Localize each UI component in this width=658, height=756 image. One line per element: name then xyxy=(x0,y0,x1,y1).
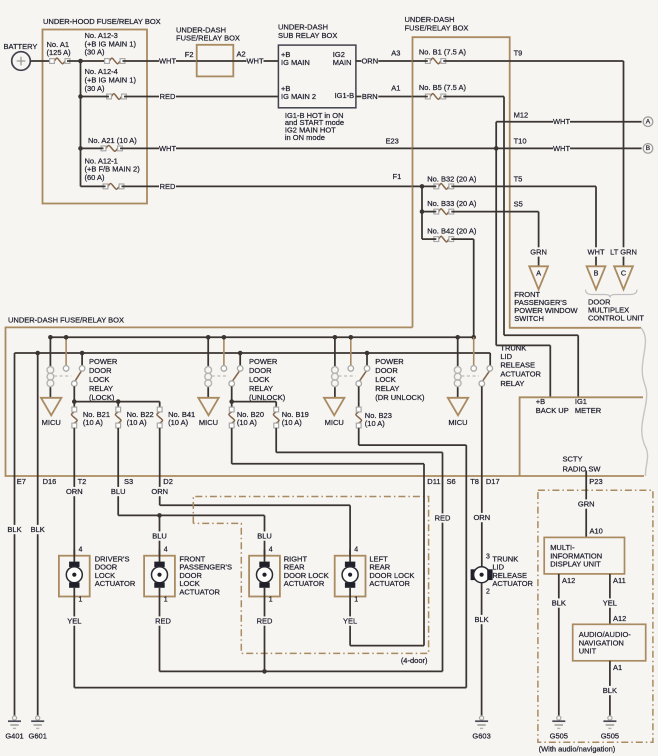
connector circle B xyxy=(643,144,653,154)
svg-text:A2: A2 xyxy=(237,50,246,59)
svg-text:WHT: WHT xyxy=(159,57,176,66)
back-up/meter box (SCTY RADIO SW) xyxy=(520,397,643,476)
svg-text:ACTUATOR: ACTUATOR xyxy=(95,579,136,588)
svg-text:WHT: WHT xyxy=(246,57,263,66)
svg-text:YEL: YEL xyxy=(67,617,81,626)
node BLU front passenger xyxy=(157,513,162,518)
fuse No.B42 (20 A) xyxy=(427,227,477,242)
node B33 junction xyxy=(420,209,425,214)
wire WHT row1 to F2 xyxy=(123,60,197,62)
svg-text:ACTUATOR: ACTUATOR xyxy=(179,588,220,597)
svg-text:RELAY: RELAY xyxy=(375,384,399,393)
power door lock relay ((UNLOCK)) xyxy=(205,335,286,402)
wire P23 GRN to multi-information display unit xyxy=(585,476,587,537)
fuse No.B32 (20 A) xyxy=(427,175,477,190)
bracket door multiplex control unit xyxy=(586,290,645,323)
wire F1 to B32 to T5 xyxy=(413,185,437,187)
svg-text:WHT: WHT xyxy=(159,144,176,153)
svg-text:No. B42 (20 A): No. B42 (20 A) xyxy=(427,227,477,236)
node RED right rear xyxy=(262,669,267,674)
node F1 junction xyxy=(420,184,425,189)
wire B20 to D11 xyxy=(231,428,233,464)
wire M12 feed east to +B BACK UP xyxy=(496,344,550,346)
svg-text:2: 2 xyxy=(486,588,490,595)
svg-text:(With audio/navigation): (With audio/navigation) xyxy=(539,745,616,754)
svg-text:(10 A): (10 A) xyxy=(365,419,386,428)
wire right rear RED down xyxy=(264,601,266,672)
wire A1 to B5 then down xyxy=(413,96,428,98)
wire BLU to right rear actuator xyxy=(264,515,266,555)
audio/audio-navigation unit xyxy=(573,624,646,661)
MICU triangle (unlock relay) xyxy=(198,398,218,416)
svg-text:(10 A): (10 A) xyxy=(168,418,189,427)
svg-text:RELAY: RELAY xyxy=(500,379,524,388)
wire driver's actuator YEL to T8 bus xyxy=(73,601,75,688)
svg-text:B: B xyxy=(594,268,599,277)
svg-text:T9: T9 xyxy=(514,48,523,57)
wire vertical M12/T10 feed xyxy=(495,122,497,346)
MICU triangle (trunk relay) xyxy=(448,398,468,416)
actuator M2 front passenger's door lock xyxy=(144,556,175,597)
svg-text:No. B1 (7.5 A): No. B1 (7.5 A) xyxy=(419,48,467,57)
wire bus under-hood xyxy=(67,60,105,62)
svg-text:IG1: IG1 xyxy=(575,397,587,406)
fuse No.A1 (125 A) xyxy=(47,40,72,64)
wire T9 down to connector C xyxy=(510,60,624,62)
note IG1-B hot modes xyxy=(285,111,344,142)
svg-text:M12: M12 xyxy=(514,110,529,119)
svg-text:DOOR: DOOR xyxy=(249,366,272,375)
actuator M4 left rear door lock xyxy=(335,556,366,597)
wire P23 stub xyxy=(585,471,587,477)
svg-text:MICU: MICU xyxy=(42,418,61,427)
svg-text:(LOCK): (LOCK) xyxy=(89,393,115,402)
wire ground bus in main box xyxy=(15,352,491,354)
svg-text:No. A21 (10 A): No. A21 (10 A) xyxy=(88,136,137,145)
svg-text:(125 A): (125 A) xyxy=(47,48,72,57)
svg-text:(4-door): (4-door) xyxy=(401,656,428,665)
svg-text:BLU: BLU xyxy=(257,532,272,541)
svg-text:A10: A10 xyxy=(590,527,603,536)
svg-text:BLK: BLK xyxy=(475,615,489,624)
node bus-A1 xyxy=(78,59,83,64)
wire left rear YEL to D11 xyxy=(349,601,351,646)
svg-text:YEL: YEL xyxy=(343,617,357,626)
under-dash fuse/relay box (chimney+main) outline xyxy=(6,15,645,476)
svg-text:RED: RED xyxy=(257,617,273,626)
wire D17 ORN to trunk actuator xyxy=(481,476,483,567)
svg-text:RED: RED xyxy=(160,182,176,191)
svg-text:A3: A3 xyxy=(391,48,400,57)
svg-text:3: 3 xyxy=(486,553,490,560)
svg-text:G603: G603 xyxy=(472,731,490,740)
svg-text:IG MAIN 2: IG MAIN 2 xyxy=(281,92,316,101)
svg-text:T10: T10 xyxy=(514,137,527,146)
fuse No.B5 (7.5 A) xyxy=(419,83,467,99)
svg-text:BRN: BRN xyxy=(362,92,378,101)
svg-text:UNDER-DASH FUSE/RELAY BOX: UNDER-DASH FUSE/RELAY BOX xyxy=(8,315,124,324)
wire S6 RED down xyxy=(442,476,444,671)
connector triangle B door multiplex xyxy=(587,266,606,289)
svg-text:RELAY: RELAY xyxy=(249,384,273,393)
svg-text:D17: D17 xyxy=(486,477,500,486)
svg-text:BLK: BLK xyxy=(7,525,21,534)
svg-text:E7: E7 xyxy=(17,477,26,486)
ground G505 left xyxy=(558,713,560,717)
with audio/navigation dashed boundary xyxy=(538,490,653,742)
wire S3 BLU bus xyxy=(117,476,119,515)
wire WHT A2 to sub relay box xyxy=(233,60,278,62)
node B42-coil xyxy=(455,335,460,340)
svg-text:ORN: ORN xyxy=(151,487,168,496)
svg-text:BLU: BLU xyxy=(152,532,167,541)
svg-text:SCTY: SCTY xyxy=(563,455,583,464)
svg-text:RELAY: RELAY xyxy=(89,384,113,393)
node lock bus B22 xyxy=(116,399,121,404)
svg-text:S5: S5 xyxy=(514,200,523,209)
fuse No.B33 (20 A) xyxy=(427,199,477,214)
svg-text:ACTUATOR: ACTUATOR xyxy=(492,579,533,588)
ground G505 right xyxy=(609,713,611,717)
trunk lid release actuator M5 xyxy=(471,553,534,595)
svg-text:BLK: BLK xyxy=(31,525,45,534)
svg-text:4: 4 xyxy=(269,546,273,553)
svg-text:DOOR: DOOR xyxy=(375,366,398,375)
svg-text:WHT: WHT xyxy=(587,248,604,257)
svg-text:ORN: ORN xyxy=(361,57,378,66)
svg-text:G505: G505 xyxy=(550,731,568,740)
wire RED row2 to sub relay box xyxy=(81,96,110,98)
svg-text:UNIT: UNIT xyxy=(579,647,597,656)
wire T10 WHT to connector B xyxy=(413,147,510,149)
under-hood fuse/relay box xyxy=(43,17,161,204)
power door lock relay ((LOCK)) xyxy=(47,335,118,402)
svg-text:DOOR: DOOR xyxy=(89,366,112,375)
svg-text:D2: D2 xyxy=(163,477,173,486)
svg-text:A: A xyxy=(536,268,541,277)
svg-text:(30 A): (30 A) xyxy=(85,84,106,93)
svg-text:(UNLOCK): (UNLOCK) xyxy=(249,393,286,402)
svg-text:IG1-B: IG1-B xyxy=(335,91,355,100)
svg-text:No. B5 (7.5 A): No. B5 (7.5 A) xyxy=(419,83,467,92)
wire T5 down to connector B triangle xyxy=(510,185,596,187)
svg-text:MICU: MICU xyxy=(199,418,218,427)
pin labels main box bottom xyxy=(17,477,603,486)
wire junction column F1-B33-B42 xyxy=(421,186,423,239)
svg-text:A12: A12 xyxy=(562,576,575,585)
svg-text:SUB RELAY BOX: SUB RELAY BOX xyxy=(278,31,337,40)
svg-text:WHT: WHT xyxy=(553,117,570,126)
wire unlock fuse bus xyxy=(232,401,277,403)
svg-text:E23: E23 xyxy=(386,137,399,146)
svg-text:F2: F2 xyxy=(185,50,194,59)
wire RED bus to S6 xyxy=(160,670,443,672)
svg-text:DISPLAY UNIT: DISPLAY UNIT xyxy=(550,560,601,569)
power door lock relay ((DR UNLOCK)) xyxy=(332,335,425,402)
svg-text:D16: D16 xyxy=(43,477,57,486)
MICU triangle (lock relay) xyxy=(41,398,61,416)
fuse No.B19 (10 A) xyxy=(273,402,308,428)
wire trunk actuator BLK to G603 xyxy=(481,583,483,713)
svg-text:BATTERY: BATTERY xyxy=(4,42,38,51)
svg-text:ACTUATOR: ACTUATOR xyxy=(500,370,541,379)
svg-text:MAIN: MAIN xyxy=(333,58,352,67)
svg-text:(10 A): (10 A) xyxy=(127,418,148,427)
multi-information display unit xyxy=(544,537,624,574)
svg-text:FUSE/RELAY BOX: FUSE/RELAY BOX xyxy=(405,24,469,33)
fuse No.B41 (10 A) xyxy=(157,402,195,476)
svg-text:LOCK: LOCK xyxy=(375,375,395,384)
svg-text:BLU: BLU xyxy=(111,487,126,496)
wire front passenger RED down xyxy=(159,601,161,672)
svg-text:(30 A): (30 A) xyxy=(85,48,106,57)
svg-text:A: A xyxy=(646,119,651,126)
wire battery to under-hood box xyxy=(30,60,51,62)
actuator M3 right rear door lock xyxy=(249,556,280,597)
wire lock fuse bus xyxy=(74,401,159,403)
svg-text:(60 A): (60 A) xyxy=(85,173,106,182)
svg-text:RED: RED xyxy=(155,617,171,626)
svg-text:SWITCH: SWITCH xyxy=(514,314,544,323)
wire B5 feed east to IG1 METER xyxy=(504,334,578,336)
svg-text:RELEASE: RELEASE xyxy=(500,361,535,370)
wire B19 to S6 xyxy=(275,428,277,452)
svg-text:F1: F1 xyxy=(393,172,402,181)
wire A1 BLK to G505 xyxy=(609,661,611,713)
wire S5 down to connector A triangle xyxy=(510,211,539,213)
node lock bus B21 xyxy=(72,399,77,404)
wire ORN IG2 MAIN to A3 xyxy=(356,60,413,62)
svg-text:LT GRN: LT GRN xyxy=(610,248,637,257)
svg-text:A1: A1 xyxy=(391,83,400,92)
svg-text:A1: A1 xyxy=(613,663,622,672)
fuse No.B22 (10 A) xyxy=(115,402,153,476)
svg-text:BLK: BLK xyxy=(603,686,617,695)
fuse No.B20 (10 A) xyxy=(229,402,264,428)
ground G603 xyxy=(481,713,483,717)
node unlock bus B20 xyxy=(229,399,234,404)
svg-text:T8: T8 xyxy=(470,477,479,486)
svg-text:(10 A): (10 A) xyxy=(282,418,303,427)
svg-text:1: 1 xyxy=(164,597,168,604)
ground G601 xyxy=(37,713,39,717)
svg-text:ACTUATOR: ACTUATOR xyxy=(369,579,410,588)
svg-text:LOCK: LOCK xyxy=(89,375,109,384)
svg-text:(10 A): (10 A) xyxy=(237,418,258,427)
svg-text:RADIO SW: RADIO SW xyxy=(563,464,602,473)
ground G401 xyxy=(14,713,16,717)
wire A12 BLK to G505 xyxy=(558,574,560,713)
svg-text:T5: T5 xyxy=(514,175,523,184)
svg-text:B: B xyxy=(646,145,651,152)
svg-text:in ON mode: in ON mode xyxy=(285,133,325,142)
svg-text:GRN: GRN xyxy=(578,500,595,509)
wire D2 ORN to left rear actuator xyxy=(159,476,161,505)
node bus-A12-4 xyxy=(78,94,83,99)
under-dash fuse/relay box F2-A2 xyxy=(176,25,246,76)
svg-text:IG MAIN: IG MAIN xyxy=(281,58,310,67)
wire A11 YEL to audio unit xyxy=(609,574,611,624)
node D16 junction xyxy=(35,351,40,356)
svg-text:No. B33 (20 A): No. B33 (20 A) xyxy=(427,199,477,208)
svg-text:ORN: ORN xyxy=(66,487,83,496)
fuse No.B23 (10 A) xyxy=(356,402,392,428)
fuse No.B1 (7.5 A) xyxy=(419,48,467,64)
svg-text:1: 1 xyxy=(269,597,273,604)
connector triangle C door multiplex xyxy=(614,266,633,289)
svg-text:(10 A): (10 A) xyxy=(83,418,104,427)
wire +B bus (B42) in main box xyxy=(50,336,473,338)
svg-text:BLK: BLK xyxy=(552,599,566,608)
svg-text:GRN: GRN xyxy=(530,248,547,257)
wire BRN IG1-B to A1 xyxy=(356,96,413,98)
svg-text:4: 4 xyxy=(79,546,83,553)
svg-text:ACTUATOR: ACTUATOR xyxy=(284,579,325,588)
svg-text:POWER: POWER xyxy=(89,357,118,366)
fuse No.A12-3 (+B IG MAIN 1)(30 A) xyxy=(85,31,137,64)
battery BATTERY xyxy=(4,42,38,70)
svg-text:C: C xyxy=(621,268,626,277)
wire T8 down to YEL bus xyxy=(465,476,467,688)
svg-text:LOCK: LOCK xyxy=(249,375,269,384)
4-door dashed boundary xyxy=(193,497,428,654)
svg-text:4: 4 xyxy=(354,546,358,553)
svg-text:RED: RED xyxy=(160,92,176,101)
svg-text:No. B32 (20 A): No. B32 (20 A) xyxy=(427,175,477,184)
svg-text:1: 1 xyxy=(79,597,83,604)
actuator M1 driver's door lock xyxy=(59,556,90,597)
svg-text:METER: METER xyxy=(575,406,602,415)
svg-text:G401: G401 xyxy=(5,731,23,740)
svg-text:POWER: POWER xyxy=(249,357,278,366)
MICU triangle (dr unlock relay) xyxy=(324,398,344,416)
fuse No.A21 (10 A) xyxy=(88,136,137,151)
svg-text:1: 1 xyxy=(354,597,358,604)
svg-text:4: 4 xyxy=(164,546,168,553)
wire A3 to B1 to T9 xyxy=(413,60,428,62)
svg-text:S3: S3 xyxy=(124,477,133,486)
torn edge (continuation) xyxy=(641,328,648,476)
under-dash sub relay box U1 xyxy=(278,23,356,108)
svg-text:T2: T2 xyxy=(78,477,87,486)
svg-text:+B: +B xyxy=(536,397,545,406)
wire E7 BLK to G401 xyxy=(14,476,16,713)
svg-text:(DR UNLOCK): (DR UNLOCK) xyxy=(375,393,425,402)
svg-text:MICU: MICU xyxy=(448,418,467,427)
svg-text:FUSE/RELAY BOX: FUSE/RELAY BOX xyxy=(176,34,240,43)
svg-text:RED: RED xyxy=(435,514,451,523)
svg-text:MICU: MICU xyxy=(325,418,344,427)
svg-text:D11: D11 xyxy=(427,477,440,486)
svg-text:CONTROL UNIT: CONTROL UNIT xyxy=(588,314,644,323)
svg-text:A12: A12 xyxy=(613,614,626,623)
trunk lid release actuator relay xyxy=(454,337,541,476)
wire RED row5 to F1 xyxy=(81,185,106,187)
node T10 junction xyxy=(494,146,499,151)
svg-text:G601: G601 xyxy=(29,731,47,740)
node B42-contact xyxy=(471,335,476,340)
svg-text:UNDER-HOOD FUSE/RELAY BOX: UNDER-HOOD FUSE/RELAY BOX xyxy=(43,17,161,26)
wire BLU to front passenger actuator xyxy=(159,515,161,555)
wire WHT row4 to E23 xyxy=(81,147,104,149)
svg-text:S6: S6 xyxy=(447,477,456,486)
svg-text:P23: P23 xyxy=(589,477,602,486)
svg-text:YEL: YEL xyxy=(603,599,617,608)
svg-text:BACK UP: BACK UP xyxy=(536,406,569,415)
svg-text:A11: A11 xyxy=(613,576,626,585)
svg-text:ORN: ORN xyxy=(473,513,490,522)
connector circle A xyxy=(643,117,653,127)
wire B42 row then down to bus xyxy=(422,238,436,240)
fuse No.A12-1 (+B F/B MAIN 2)(60 A) xyxy=(85,156,141,189)
wire B33 row to S5 xyxy=(422,211,436,213)
wire inside F2-A2 xyxy=(197,60,234,62)
fuse No.A12-4 (+B IG MAIN 1)(30 A) xyxy=(85,67,137,99)
svg-text:WHT: WHT xyxy=(553,144,570,153)
fuse No.B21 (10 A) xyxy=(71,402,110,476)
wire M12 WHT to connector A xyxy=(496,121,510,123)
svg-text:POWER: POWER xyxy=(375,357,404,366)
wire T2 ORN to driver's actuator xyxy=(73,476,75,556)
wire B23 to T8 xyxy=(358,428,360,445)
wire D16 BLK to G601 xyxy=(37,476,39,713)
node bus-A21 xyxy=(78,146,83,151)
connector triangle A front passenger power window switch xyxy=(514,266,578,323)
svg-text:G505: G505 xyxy=(601,731,619,740)
